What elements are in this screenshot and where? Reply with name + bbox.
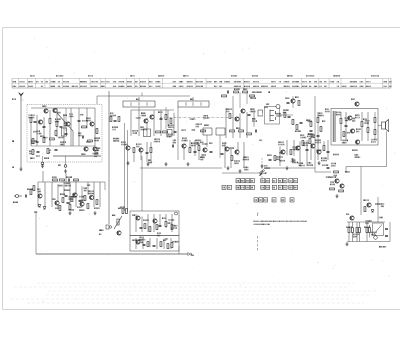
- label afintxt7: [64, 183, 67, 185]
- label iftxt3: [113, 138, 114, 140]
- resistor R30: [309, 139, 311, 144]
- ground tuner 1: [41, 164, 44, 168]
- terminal bottom: [188, 252, 192, 256]
- wire fillA: [65, 108, 67, 131]
- wire top rail AB: [97, 95, 190, 97]
- wire D left vertical: [314, 96, 316, 160]
- labels above table: [29, 75, 32, 77]
- label TS17: [277, 141, 280, 143]
- label choketxt4: [325, 176, 328, 178]
- label demodtxt10: [291, 146, 294, 148]
- label TS22: [351, 149, 354, 151]
- label afintxt6: [86, 184, 89, 186]
- label R28: [292, 159, 293, 161]
- capacitor C86: [287, 102, 290, 103]
- label top rail2: [267, 91, 270, 93]
- wire LL right drop: [104, 182, 106, 190]
- resistor R90: [156, 225, 158, 230]
- capacitor C23: [255, 130, 256, 133]
- transistor TS12: [203, 148, 207, 152]
- transformer bars T1: [333, 111, 335, 142]
- jack socket J1: [41, 162, 44, 165]
- label R27: [242, 156, 245, 158]
- transistor TS50: [66, 122, 70, 126]
- wire D bottom link: [315, 160, 331, 172]
- label demodtxt5: [307, 162, 310, 164]
- wire D choke drop: [345, 167, 347, 173]
- wire fillC2: [246, 92, 248, 104]
- connector row 3: [254, 198, 258, 202]
- IF transformer S1: [123, 101, 155, 107]
- transformer core in box S7: [270, 110, 276, 122]
- label iftxt8: [131, 130, 134, 132]
- label demodtxt1: [302, 142, 305, 144]
- transistor TS8: [150, 115, 154, 119]
- label TS25: [329, 176, 332, 178]
- label TS13: [225, 108, 228, 110]
- transistor TS4: [90, 122, 94, 126]
- ground D1: [335, 194, 338, 198]
- C ladder 3: [279, 146, 281, 166]
- label LL3: [55, 207, 56, 209]
- label R5: [93, 137, 96, 139]
- label tunertxt5: [95, 147, 98, 149]
- label Ctr1: [294, 96, 297, 98]
- label TS10: [121, 141, 122, 143]
- label outtxt8: [354, 154, 357, 156]
- pushbutton J4: [259, 171, 263, 176]
- resistor R82: [165, 115, 167, 120]
- label TS5: [80, 153, 83, 155]
- socket circle: [175, 212, 178, 215]
- label R1: [28, 114, 31, 116]
- label TS3: [36, 130, 39, 132]
- label afboxtxt8: [167, 219, 170, 221]
- wire fillD1: [317, 112, 319, 142]
- transistor TS20: [348, 116, 352, 120]
- label top rail: [251, 91, 254, 93]
- label R2b: [59, 141, 62, 143]
- resistor R91: [171, 243, 173, 248]
- ground B4: [126, 161, 129, 165]
- label iftxt4: [199, 142, 202, 144]
- label tunertxt2: [93, 153, 96, 155]
- resistor R15: [150, 148, 152, 153]
- label fillD1: [321, 120, 324, 122]
- label tunertxt8: [57, 112, 58, 114]
- label TS41: [346, 213, 347, 215]
- label psutxt3: [353, 234, 354, 236]
- label L1: [54, 118, 57, 120]
- capacitor C26: [269, 159, 272, 160]
- label TS21: [356, 128, 357, 130]
- ground B2: [186, 162, 189, 166]
- transistor TS24: [317, 150, 321, 154]
- resistor R86: [292, 120, 294, 125]
- wire S5 drop: [206, 135, 208, 147]
- label iftxt12: [139, 126, 142, 128]
- label tunertxt11: [58, 137, 61, 139]
- capacitor C40: [25, 195, 26, 198]
- label TS20: [354, 114, 357, 116]
- label TS11: [181, 137, 184, 139]
- mains transformer T2: [373, 223, 384, 235]
- transformer winding: [374, 225, 382, 235]
- label C3: [64, 122, 65, 124]
- filter S8: [258, 110, 263, 116]
- label tunertxt3: [33, 131, 34, 133]
- label tunertxt9: [93, 150, 96, 152]
- transistor TS14: [241, 109, 245, 113]
- label demodtxt9: [251, 118, 254, 120]
- output box: [331, 109, 378, 146]
- resistor R61: [122, 209, 124, 214]
- label TS31: [51, 198, 54, 200]
- resistor R28: [290, 150, 292, 155]
- transistor TS6: [93, 147, 97, 151]
- resistor R17: [198, 146, 200, 151]
- ground B3: [164, 162, 167, 166]
- wire D right vert: [374, 112, 376, 140]
- AF ladder upper: [135, 214, 137, 232]
- label S2: [190, 99, 191, 100]
- label demodtxt11: [297, 162, 300, 164]
- wire B bottom rail: [140, 167, 222, 169]
- label choketxt2: [331, 163, 332, 165]
- diode D4: [371, 210, 374, 212]
- label iftxt15: [195, 140, 198, 142]
- capacitor C42: [67, 202, 70, 203]
- label iftxt6: [195, 123, 198, 125]
- label iftxt1: [203, 115, 206, 117]
- label Abl1: [29, 157, 32, 159]
- label tunertxt1: [85, 141, 88, 143]
- coil L1: [62, 128, 67, 136]
- resistor R4: [82, 126, 87, 128]
- wire B stage2 left: [177, 107, 179, 160]
- label S1: [135, 99, 138, 100]
- capacitor C32: [310, 130, 313, 131]
- label tunertxt6: [79, 114, 82, 116]
- PSU ladder: [348, 222, 350, 242]
- wire S2 tick: [192, 97, 194, 101]
- resistor R38: [323, 146, 325, 151]
- capacitor C14: [172, 145, 173, 148]
- label Ctr2: [284, 97, 287, 99]
- transistor TS19: [355, 102, 359, 106]
- resistor R54: [62, 198, 64, 203]
- label Abl2: [43, 157, 46, 159]
- resistor R75: [366, 228, 368, 233]
- label demodtxt14: [276, 156, 279, 158]
- transistor TS23: [311, 144, 315, 148]
- resistor R92: [298, 101, 300, 106]
- transistor TS13: [235, 117, 239, 121]
- label demodtxt6: [228, 147, 231, 149]
- label TS1: [41, 105, 44, 107]
- label afintxt1: [71, 194, 74, 196]
- switch symbol above rows: [260, 170, 267, 176]
- ground tuner 2: [64, 169, 67, 173]
- filter S5: [203, 128, 212, 135]
- wire AF box right drop: [178, 246, 180, 254]
- ground C3: [260, 164, 263, 168]
- label R15: [147, 159, 150, 161]
- resistor R11: [118, 117, 120, 122]
- resistor R70: [364, 207, 366, 212]
- label fillB1: [157, 111, 160, 113]
- label afintxt10: [82, 187, 85, 189]
- wire PSU vert 1: [360, 167, 362, 216]
- label R29: [299, 134, 302, 136]
- resistor R63: [144, 224, 146, 229]
- resistor R24: [230, 130, 235, 132]
- transistor TS22: [355, 140, 359, 144]
- label demodtxt8: [244, 167, 245, 169]
- label iftxt16: [181, 129, 184, 131]
- label afintxt5: [78, 196, 81, 198]
- label demodtxt15: [264, 107, 267, 109]
- jack socket J2: [64, 165, 67, 168]
- IF ladder 3: [183, 144, 185, 160]
- capacitor C12: [146, 152, 149, 153]
- label jack: [57, 164, 60, 166]
- label R63: [142, 219, 145, 221]
- scan noise specks: [46, 249, 49, 252]
- transistor TS1: [44, 109, 48, 113]
- label choketxt3: [344, 171, 347, 173]
- label C21: [249, 108, 252, 110]
- label C33: [321, 164, 324, 166]
- transistor TS37: [136, 240, 140, 244]
- label iftxt2: [135, 117, 138, 119]
- transistor TS15: [225, 147, 229, 151]
- label R10: [109, 112, 112, 114]
- label afboxtxt6: [138, 237, 141, 239]
- capacitor C31: [327, 151, 330, 152]
- label outtxt4: [365, 120, 366, 122]
- capacitor C82: [300, 122, 303, 123]
- label left b: [11, 166, 14, 168]
- label R61: [119, 206, 122, 208]
- ground LL: [93, 211, 96, 215]
- AF ladder lower: [135, 238, 137, 249]
- wire B stage1 drop: [138, 107, 140, 110]
- filter S4: [167, 130, 172, 137]
- resistor R67: [147, 242, 149, 247]
- label choketxt1: [329, 181, 332, 183]
- label outtxt12: [324, 108, 327, 110]
- label afboxtxt1: [138, 239, 141, 241]
- label bottom wire: [192, 255, 193, 256]
- resistor R84: [222, 95, 227, 97]
- label LL1: [64, 189, 65, 191]
- resistor R26: [247, 133, 252, 135]
- resistor R16: [189, 148, 191, 153]
- resistor R29: [302, 141, 304, 146]
- label demodtxt12: [278, 160, 281, 162]
- label fillC2: [294, 130, 297, 132]
- wire S6 drop: [219, 135, 221, 158]
- capacitor C50: [159, 225, 162, 226]
- label R54: [60, 193, 61, 195]
- label C5: [77, 132, 80, 134]
- label C26: [266, 154, 269, 156]
- resistor R8: [32, 139, 34, 144]
- wire B vert 142: [141, 156, 143, 211]
- label outtxt11: [332, 154, 335, 156]
- label D2: [33, 211, 36, 213]
- ground D2: [317, 161, 320, 165]
- resistor R25: [239, 130, 244, 132]
- label psutxt1: [375, 203, 376, 205]
- wire B vert 124: [124, 123, 126, 211]
- label demodtxt13: [306, 133, 309, 135]
- AF box lower: [130, 236, 179, 252]
- label R24: [235, 127, 238, 129]
- transistor TS25: [335, 179, 339, 183]
- wire link tuner af 2: [65, 173, 67, 182]
- label left a: [11, 140, 14, 142]
- resistor R6: [88, 140, 93, 142]
- label outtxt6: [347, 132, 348, 134]
- resistor R98: [33, 186, 35, 191]
- capacitor C51: [153, 245, 156, 246]
- label afboxtxt3: [166, 222, 169, 224]
- resistor R64: [149, 227, 151, 232]
- label outtxt5: [341, 140, 344, 142]
- capacitor C33: [327, 167, 330, 168]
- label iftxt9: [201, 154, 204, 156]
- D ladder: [340, 112, 342, 141]
- wire jack drop b: [65, 156, 67, 165]
- label afintxt9: [79, 200, 82, 202]
- wire antenna down: [20, 101, 22, 168]
- transistor TS32: [73, 193, 77, 197]
- resistor R95: [59, 206, 61, 211]
- resistor R94: [47, 149, 49, 154]
- resistor R13: [163, 131, 168, 133]
- input jack JIN: [14, 195, 22, 198]
- label outtxt1: [351, 118, 354, 120]
- wire fillC1: [239, 92, 241, 108]
- label R11: [112, 126, 113, 128]
- resistor R23: [284, 113, 286, 118]
- label iftxt10: [195, 143, 198, 145]
- resistor R42: [339, 190, 344, 192]
- ground PSU: [345, 242, 348, 246]
- resistor R5: [96, 129, 98, 134]
- label antenna: [12, 98, 13, 100]
- capacitor C4: [78, 120, 81, 121]
- capacitor C5: [82, 136, 83, 139]
- label 280: [117, 208, 120, 209]
- transistor TS18: [296, 146, 300, 150]
- label TS12: [199, 156, 202, 158]
- label afintxt3: [67, 209, 70, 211]
- wire main left vertical: [108, 91, 110, 224]
- ground B1: [146, 162, 149, 166]
- transistor TS34: [117, 231, 121, 235]
- capacitor C85: [143, 244, 146, 245]
- wire C tr riser: [292, 96, 294, 108]
- label outtxt2: [344, 117, 347, 119]
- connector row 1: [236, 179, 240, 183]
- wire link tuner af 1: [42, 171, 44, 182]
- capacitor C21: [248, 114, 251, 115]
- capacitor C24: [221, 153, 224, 154]
- resistor R96: [69, 205, 71, 210]
- faint reverse-side bleed: [37, 282, 354, 284]
- label iftxt11: [191, 129, 194, 131]
- label R71: [345, 226, 348, 228]
- filter S6: [216, 128, 225, 135]
- resistor R68: [160, 242, 162, 247]
- resistor R22: [229, 114, 231, 119]
- label outtxt7: [309, 134, 312, 136]
- label fillB2: [168, 124, 169, 126]
- label demodtxt4: [258, 140, 261, 142]
- resistor R40: [334, 171, 339, 173]
- label TS23: [314, 139, 317, 141]
- transistor TS33: [89, 195, 93, 199]
- label tunertxt10: [42, 137, 45, 139]
- label R16: [191, 142, 192, 144]
- capacitor C2: [43, 126, 46, 127]
- detector box S7: [265, 107, 280, 125]
- diode D3: [43, 207, 46, 209]
- wire S1 tick: [138, 97, 140, 101]
- transistor TS31: [55, 201, 59, 205]
- resistor R57: [96, 200, 98, 205]
- wire LL feedback vert: [35, 211, 37, 254]
- wire rail drop97: [96, 96, 98, 104]
- resistor R51: [53, 179, 58, 181]
- capacitor C89: [65, 195, 68, 196]
- ground antenna: [19, 167, 22, 171]
- capacitor C6: [36, 141, 39, 142]
- capacitor C30: [345, 125, 348, 126]
- resistor R3: [56, 122, 58, 127]
- fuse F1: [374, 236, 378, 240]
- label S4: [167, 126, 170, 128]
- wire jack drop a: [42, 156, 44, 162]
- label afboxtxt5: [171, 225, 174, 227]
- filter S3: [144, 129, 151, 137]
- resistor R97: [87, 204, 89, 209]
- label psutxt5: [365, 220, 368, 222]
- capacitor C22: [288, 116, 291, 117]
- C ladder 1: [225, 108, 227, 138]
- wire C bottom rail: [222, 172, 262, 174]
- ground C1: [238, 169, 241, 173]
- resistor R34: [361, 122, 363, 127]
- label demodtxt2: [290, 158, 293, 160]
- resistor R81: [50, 138, 55, 140]
- resistor R7: [43, 138, 45, 143]
- label fillA1: [62, 114, 65, 116]
- capacitor C25: [306, 149, 309, 150]
- wire C right rail: [266, 167, 315, 169]
- resistor R41: [330, 188, 335, 190]
- label afboxtxt2: [156, 232, 159, 234]
- label 2x80b: [98, 233, 101, 235]
- label psutxt4: [378, 217, 381, 219]
- label tunertxt13: [35, 155, 38, 157]
- resistor R35: [367, 128, 369, 133]
- capacitor C3: [60, 126, 63, 127]
- antenna: [19, 93, 24, 102]
